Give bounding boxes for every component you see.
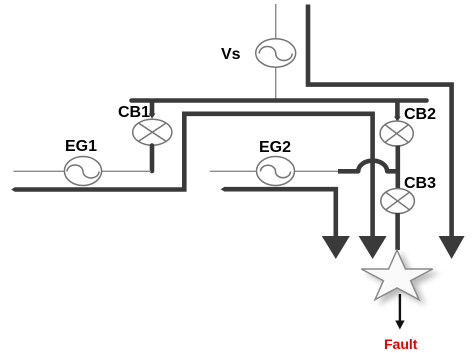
wire: left feeder with corners (EG1 branch to middle arrow) bbox=[15, 114, 373, 237]
wire: upstream grid feeder L bbox=[308, 5, 452, 238]
svg-text:CB1: CB1 bbox=[118, 104, 150, 121]
wire: EG1 lead bbox=[14, 170, 152, 172]
generator EG2 bbox=[257, 157, 295, 186]
wire: Vs source lead bbox=[275, 4, 277, 100]
breaker CB3 bbox=[381, 189, 415, 214]
generator EG1 bbox=[64, 157, 101, 186]
breaker CB1 top stub bbox=[149, 100, 156, 119]
wire: EG2 lead bbox=[210, 170, 340, 172]
arrow: right feeder arrowhead bbox=[439, 236, 465, 259]
svg-text:CB3: CB3 bbox=[404, 175, 436, 192]
breaker CB2 stub bbox=[394, 100, 401, 122]
bus: main top bus bbox=[132, 98, 427, 103]
source Vs (AC source symbol) bbox=[256, 39, 296, 67]
fault star bbox=[361, 250, 432, 300]
breaker CB1 bbox=[133, 119, 172, 145]
svg-text:Fault: Fault bbox=[384, 336, 418, 352]
wire: EG2 lower feeder bbox=[225, 189, 336, 237]
wire: EG2 tie with hop over feeder bbox=[338, 161, 397, 172]
svg-text:CB2: CB2 bbox=[404, 106, 436, 123]
breaker CB1 bottom stub bbox=[150, 146, 155, 172]
breaker CB2 bbox=[380, 121, 413, 146]
svg-text:EG1: EG1 bbox=[65, 138, 97, 155]
arrow: left feeder arrowhead bbox=[322, 236, 350, 259]
wire: CB2-CB3 link bbox=[395, 146, 400, 190]
arrow: fault pointer bbox=[395, 294, 404, 330]
arrow: middle feeder arrowhead bbox=[359, 236, 387, 259]
svg-text:Vs: Vs bbox=[221, 46, 241, 63]
wire: CB3 to fault bbox=[395, 213, 400, 250]
svg-text:EG2: EG2 bbox=[259, 139, 291, 156]
